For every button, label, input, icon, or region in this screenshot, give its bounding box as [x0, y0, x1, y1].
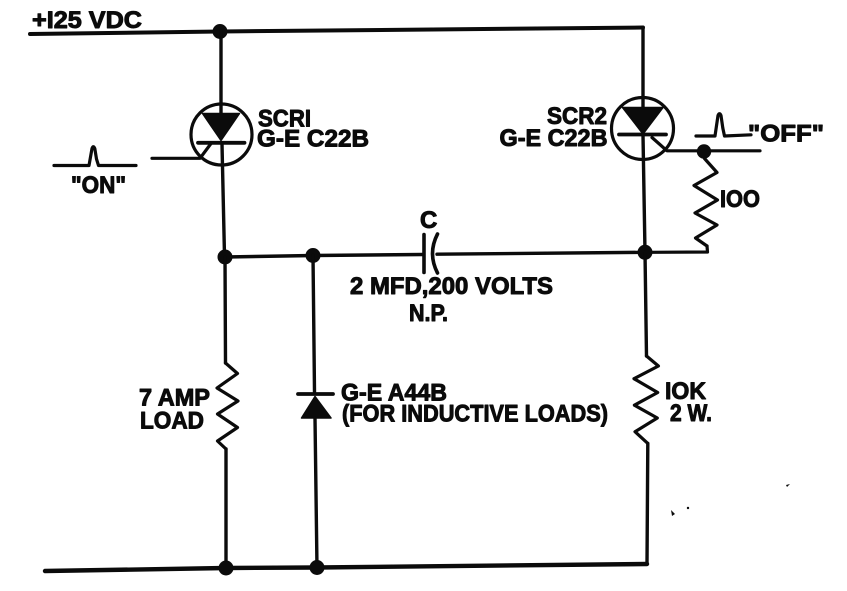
wire load branch bottom [224, 449, 227, 568]
speck artifact 2 [687, 507, 689, 509]
junction gate wire / resistor 100 [697, 144, 711, 158]
diode CR1 G-E A44B (cathode bar) [298, 392, 333, 396]
wire SCR2 cathode [643, 135, 645, 253]
resistor R 100 ohm [694, 159, 718, 247]
wire top rail [30, 28, 643, 35]
wire resistor 100 bottom to mid node [650, 246, 708, 252]
svg-text:C: C [420, 207, 437, 234]
wire SCR2 anode drop from top rail [641, 28, 644, 110]
junction bottom rail load branch [219, 561, 234, 576]
resistor R 10K 2W [634, 356, 658, 443]
wire bottom rail [45, 564, 647, 571]
junction bottom rail diode branch [310, 560, 325, 575]
wire SCR1 anode [219, 32, 222, 115]
wire diode branch bottom [315, 418, 317, 568]
SCR SCR1 [191, 104, 252, 165]
diode CR1 G-E A44B (anode triangle) [302, 397, 332, 419]
svg-text:"ON": "ON" [71, 172, 126, 199]
SCR SCR2 [612, 98, 674, 160]
"OFF" trigger pulse symbol [696, 114, 751, 136]
svg-text:LOAD: LOAD [140, 408, 204, 435]
"ON" trigger pulse symbol [54, 147, 136, 166]
speck artifact 1 [671, 510, 675, 516]
wire 10K branch top [645, 252, 647, 356]
svg-text:"OFF": "OFF" [748, 121, 824, 148]
wire SCR1 gate lead [152, 144, 211, 159]
junction mid rail diode branch [306, 248, 321, 263]
wire load branch top [223, 257, 227, 363]
svg-text:G-E C22B: G-E C22B [500, 125, 608, 152]
svg-text:IOO: IOO [720, 186, 760, 213]
speck artifact 3 [786, 484, 790, 487]
wire 10K branch bottom [645, 443, 649, 564]
svg-text:G-E C22B: G-E C22B [257, 126, 369, 153]
resistor R load 7 AMP [217, 363, 238, 449]
svg-text:2 W.: 2 W. [670, 400, 712, 427]
wire mid rail right (capacitor to SCR2 cathode) [437, 252, 645, 254]
junction mid rail SCR2 cathode [638, 245, 653, 260]
svg-text:+I25 VDC: +I25 VDC [32, 7, 142, 34]
svg-text:2 MFD,200 VOLTS: 2 MFD,200 VOLTS [350, 273, 553, 300]
wire mid rail left (SCR1 cathode to capacitor) [225, 255, 423, 258]
capacitor C plates [424, 234, 438, 273]
svg-text:(FOR INDUCTIVE LOADS): (FOR INDUCTIVE LOADS) [342, 401, 608, 428]
junction top rail to SCR1 anode [213, 24, 228, 39]
wire SCR1 cathode [222, 144, 225, 256]
junction mid rail SCR1 cathode [218, 250, 233, 265]
wire diode branch top [313, 256, 315, 393]
svg-text:N.P.: N.P. [409, 300, 448, 327]
wire SCR2 gate lead [652, 138, 760, 151]
